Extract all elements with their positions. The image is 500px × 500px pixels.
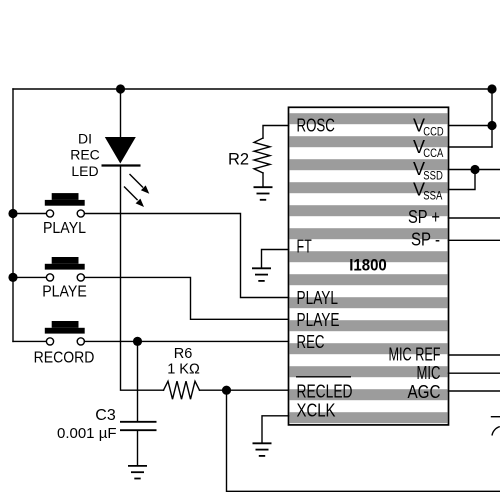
wire SP + pin to right edge [449,217,500,219]
pin label VSSA [413,179,442,202]
svg-text:PLAYL: PLAYL [297,288,339,308]
svg-text:SSD: SSD [423,169,443,183]
wire VCCA pin [449,146,493,148]
wire LED anode from top rail [120,89,122,138]
junction dot left rail PLAYE row [8,273,17,282]
svg-text:I1800: I1800 [349,256,387,274]
resistor R6 [164,381,200,399]
svg-text:SSA: SSA [423,189,442,203]
LED light emission arrow 1 [130,174,150,194]
pin label VSSD [413,159,443,182]
wire VCCD pin to right rail [449,125,493,127]
pushbutton PLAYL [45,193,85,217]
ground below FT [252,268,271,281]
wire AGC pin to right edge [449,390,500,392]
svg-text:PLAYL: PLAYL [43,220,86,237]
wire R2 to ground [262,173,264,187]
microphone wire stub bottom right [492,416,500,418]
svg-text:RECLED: RECLED [297,382,353,402]
svg-text:SP +: SP + [408,207,440,227]
ground below R2 [254,187,273,200]
junction dot REC row / C3 [133,337,142,346]
pushbutton PLAYE [45,257,85,281]
svg-text:LED: LED [71,163,98,179]
microphone body arc bottom right [492,427,500,436]
LED D1 body (diode triangle) [105,137,136,164]
svg-text:C3: C3 [95,407,116,424]
svg-text:ROSC: ROSC [297,116,335,136]
wire ROSC pin to R2 [263,126,289,139]
svg-text:CCD: CCD [423,125,444,139]
svg-text:REC: REC [297,332,325,352]
wire VSSD pin to right edge [449,169,500,171]
svg-text:PLAYE: PLAYE [297,310,340,330]
ground below XCLK [253,443,272,456]
wire MIC pin to right edge [449,372,500,374]
pin label RECLED with active-low overline [296,377,353,402]
junction dot left rail PLAYL row [8,209,17,218]
wire SP - pin to right edge [449,239,500,241]
wire FT pin to ground [262,250,289,268]
LED light emission arrow 2 [124,187,144,208]
svg-text:REC: REC [70,147,100,163]
svg-text:AGC: AGC [408,382,441,402]
wire VSSA pin up to VSSD [449,170,476,190]
junction dot VSSD [470,165,479,174]
capacitor C3 [120,341,157,465]
wire right rail vertical [491,89,493,147]
wire LED cathode down to R6 row [121,166,164,391]
wire XCLK pin to ground [262,416,289,443]
ground below C3 [128,466,147,479]
svg-text:0.001 µF: 0.001 µF [57,425,117,442]
wire PLAYL button left stub [13,213,46,215]
junction dot VCCD [487,121,496,130]
svg-text:MIC REF: MIC REF [389,345,441,365]
wire RECORD button left stub [13,340,46,342]
wire top supply rail [13,88,492,90]
wire left vertical rail [12,89,14,341]
svg-text:1 KΩ: 1 KΩ [167,362,200,378]
svg-text:FT: FT [297,237,312,257]
wire PLAYE button left stub [13,276,46,278]
pin label VCCD [413,115,444,138]
wire PLAYL button to IC PLAYL pin [84,214,288,298]
wire PLAYE button to IC PLAYE pin [84,277,288,319]
junction dot top rail right corner [487,84,496,93]
wire R6 to IC RECLED pin [200,389,289,391]
svg-text:RECORD: RECORD [34,349,95,366]
IC U1 I1800 body [289,107,449,425]
svg-text:XCLK: XCLK [297,401,336,421]
svg-text:MIC: MIC [417,363,441,383]
wire RECORD button to IC REC pin [84,340,288,342]
svg-text:DI: DI [78,130,92,146]
LED D1 cathode bar [102,164,141,166]
svg-text:R6: R6 [174,346,193,362]
wire RECLED junction down to bottom rail [227,390,500,491]
svg-text:SP -: SP - [411,229,440,249]
junction dot RECLED row [222,386,231,395]
svg-text:CCA: CCA [423,146,443,160]
pin label VCCA [413,137,443,160]
resistor R2 [254,138,270,173]
svg-text:R2: R2 [228,151,249,169]
svg-text:PLAYE: PLAYE [42,284,87,301]
wire MIC REF pin to right edge [449,354,500,356]
junction dot top rail / LED [116,84,125,93]
pushbutton RECORD [45,321,85,345]
